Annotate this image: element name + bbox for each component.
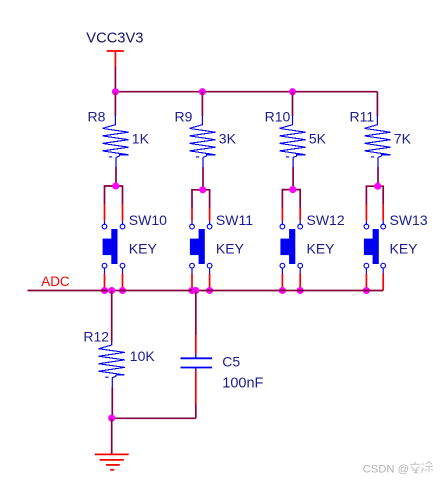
- node R12 tap on ADC bus: [108, 287, 115, 294]
- svg-text:5K: 5K: [309, 131, 327, 147]
- resistor R10: [265, 108, 327, 167]
- wire ADC bus down to C5: [195, 291, 197, 336]
- wire top bus to R9: [201, 92, 203, 116]
- svg-text:100nF: 100nF: [222, 375, 263, 391]
- svg-text:SW11: SW11: [216, 212, 253, 228]
- svg-text:R11: R11: [350, 108, 375, 124]
- node SW10 pins on ADC bus: [101, 287, 126, 294]
- switch SW12 KEY: [280, 208, 345, 291]
- switch SW10 KEY: [102, 204, 167, 291]
- ground: [95, 454, 129, 469]
- wire R8 bottom to bracket: [115, 167, 117, 186]
- svg-text:CSDN @: CSDN @: [363, 463, 409, 475]
- wire top bus to R11: [376, 92, 378, 116]
- node SW13 pins on ADC bus: [363, 287, 370, 294]
- wire R11 bottom to bracket: [377, 167, 379, 186]
- wire bracket of SW13: [366, 186, 383, 204]
- svg-text:KEY: KEY: [129, 240, 158, 256]
- svg-text:KEY: KEY: [390, 240, 419, 256]
- svg-text:1K: 1K: [132, 131, 150, 147]
- svg-text:SW13: SW13: [390, 212, 428, 228]
- svg-text:10K: 10K: [130, 348, 156, 364]
- node junction R8/SW10: [112, 182, 119, 189]
- resistor R11: [350, 108, 412, 167]
- wire top bus: [115, 91, 377, 93]
- wire R10 bottom to bracket: [292, 167, 294, 190]
- svg-text:ADC: ADC: [41, 274, 70, 289]
- wire bracket of SW10: [105, 186, 123, 204]
- resistor R12: [83, 329, 155, 388]
- svg-text:C5: C5: [222, 354, 240, 370]
- watermark CSDN: [363, 462, 433, 476]
- wire junction to ground: [111, 418, 113, 454]
- svg-text:R9: R9: [175, 108, 193, 124]
- node SW12 pins on ADC bus: [279, 287, 304, 294]
- switch SW11 KEY: [190, 208, 254, 291]
- svg-text:SW10: SW10: [129, 212, 167, 228]
- svg-text:SW12: SW12: [307, 212, 345, 228]
- wire top bus to R8: [114, 92, 116, 116]
- node SW11 pins on ADC bus: [188, 287, 213, 294]
- capacitor C5: [181, 335, 264, 404]
- power port VCC3V3: [86, 30, 143, 66]
- resistor R9: [175, 108, 237, 167]
- switch SW13 KEY: [364, 204, 428, 290]
- svg-text:KEY: KEY: [216, 240, 245, 256]
- resistor R8: [88, 108, 150, 167]
- svg-text:KEY: KEY: [307, 240, 336, 256]
- node R10 top junction: [289, 88, 296, 95]
- svg-text:7K: 7K: [394, 131, 412, 147]
- wire ADC bus: [28, 290, 384, 292]
- wire C5 bottom: [195, 404, 197, 418]
- node bottom junction: [108, 415, 115, 422]
- wire R9 bottom to bracket: [202, 167, 204, 190]
- svg-text:VCC3V3: VCC3V3: [86, 30, 143, 46]
- wire bracket of SW12: [282, 190, 300, 208]
- wire top bus to R10: [292, 92, 294, 116]
- wire bottom connector R12/C5: [112, 417, 196, 419]
- svg-text:R12: R12: [83, 329, 109, 345]
- wire bracket of SW11: [192, 190, 210, 208]
- svg-text:R10: R10: [265, 108, 291, 124]
- node C5 tap on ADC bus: [192, 287, 199, 294]
- node R8 top junction: [112, 88, 119, 95]
- node junction R10/SW12: [289, 186, 296, 193]
- wire VCC3V3 to top bus: [114, 67, 116, 92]
- svg-text:R8: R8: [88, 108, 106, 124]
- wire R12 bottom: [111, 387, 113, 418]
- svg-text:3K: 3K: [219, 131, 237, 147]
- node junction R11/SW13: [374, 183, 381, 190]
- wire ADC bus down to R12: [111, 291, 113, 342]
- node R9 top junction: [199, 88, 206, 95]
- node junction R9/SW11: [199, 186, 206, 193]
